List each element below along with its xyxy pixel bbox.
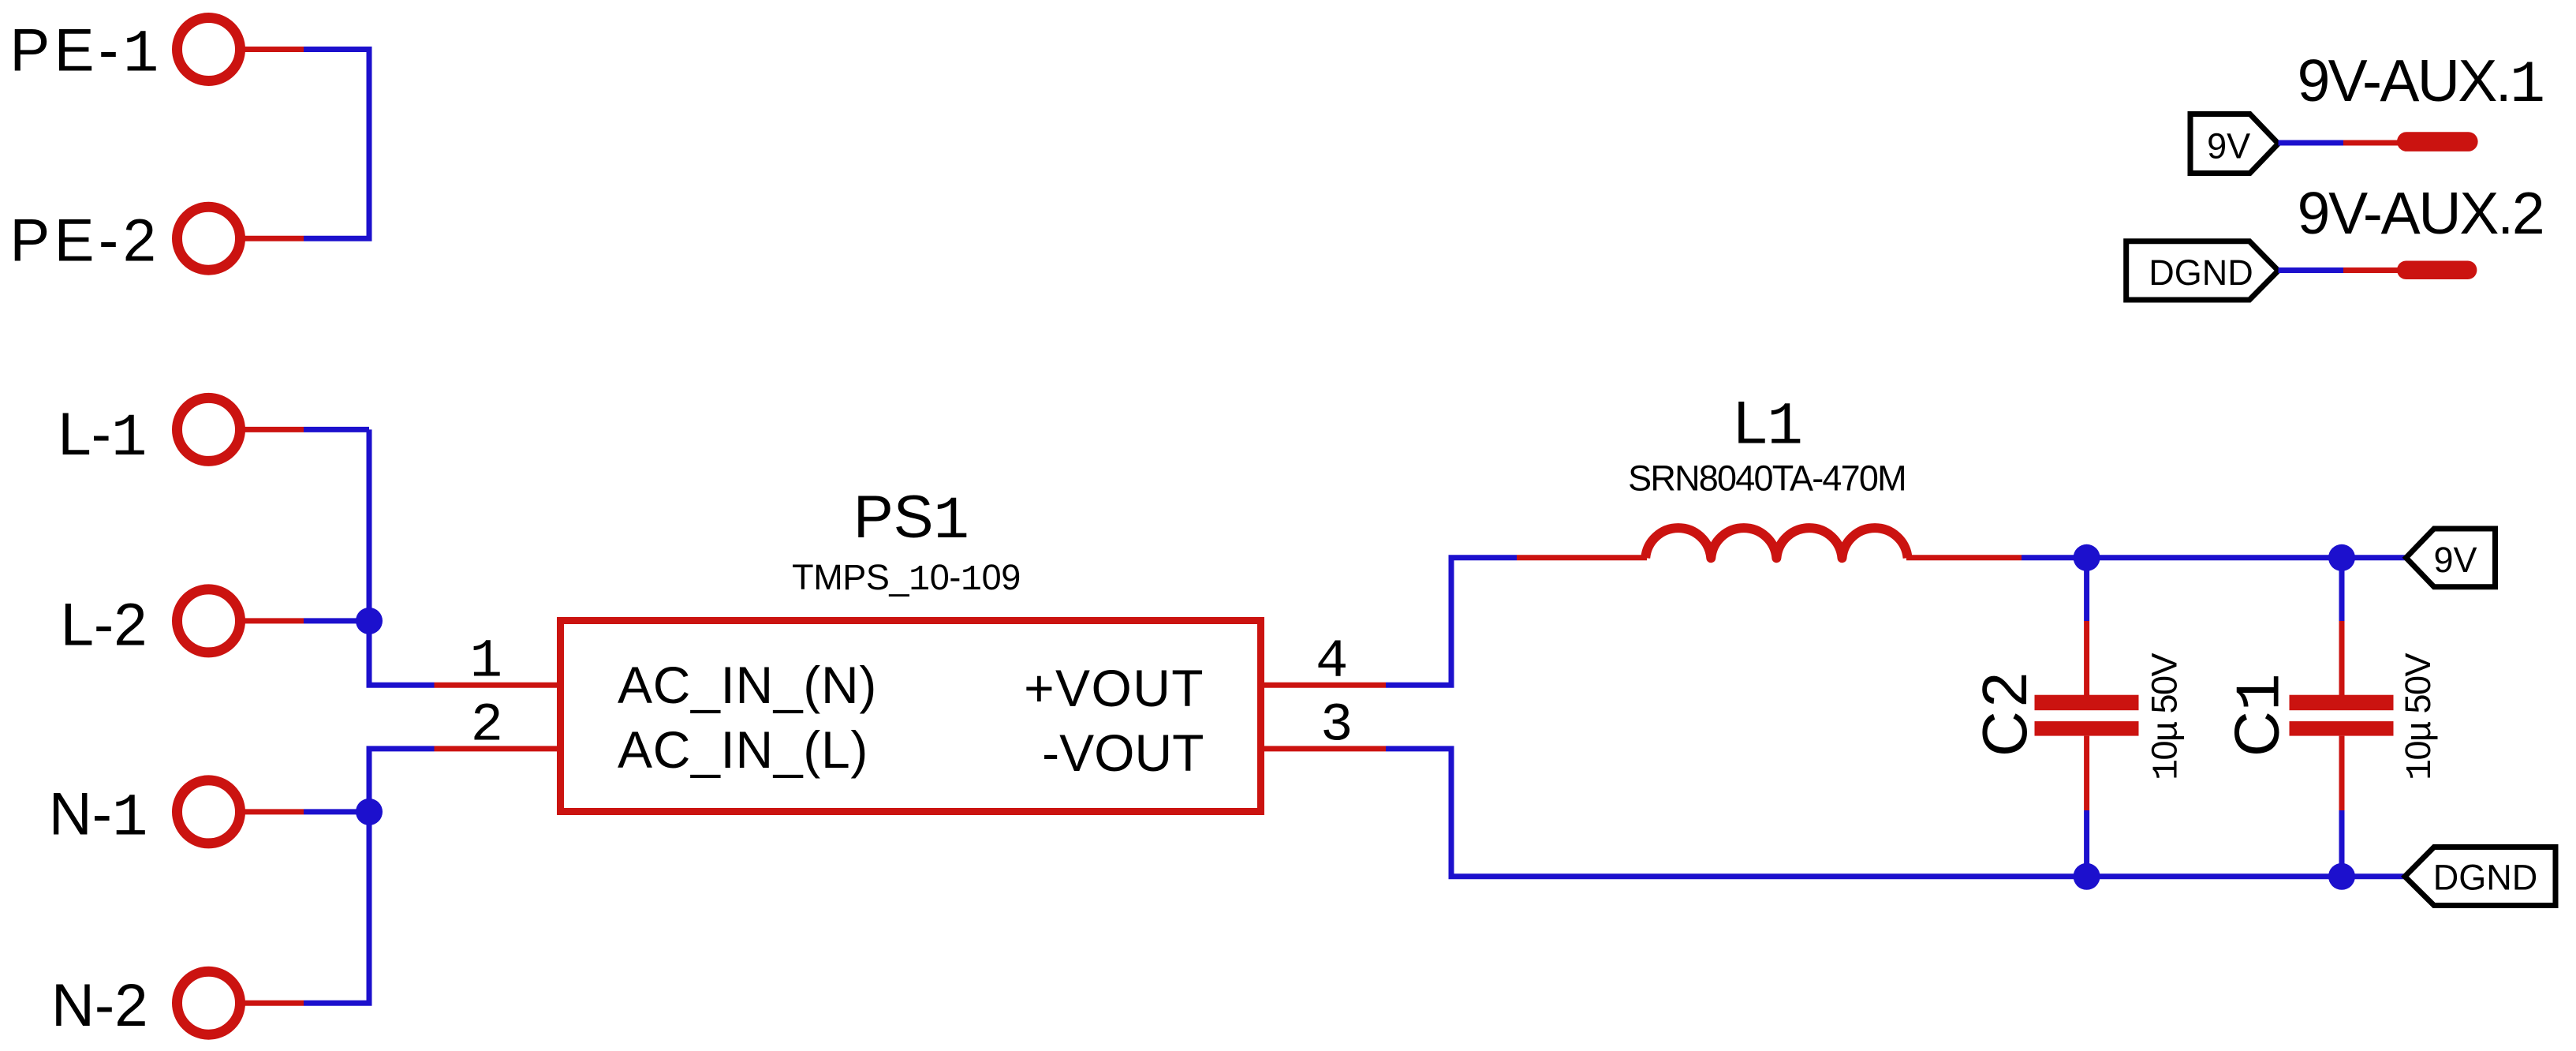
inductor L1 coils xyxy=(1645,528,1907,558)
net flag DGND aux text xyxy=(2149,252,2253,293)
capacitor C2 bottom lead (red) xyxy=(2084,736,2089,810)
svg-text:SRN8040TA-470M: SRN8040TA-470M xyxy=(1628,458,1906,498)
pin 3 lead (red) xyxy=(1264,746,1386,751)
svg-text:10µ 50V: 10µ 50V xyxy=(2145,653,2188,780)
value SRN8040TA-470M xyxy=(1628,458,1906,498)
svg-text:N-1: N-1 xyxy=(49,781,148,853)
label PE-1 xyxy=(10,17,163,89)
svg-text:DGND: DGND xyxy=(2149,252,2253,293)
svg-text:AC_IN_(L): AC_IN_(L) xyxy=(618,720,868,779)
wire C1 top (blue) xyxy=(2339,558,2345,621)
wire DGND aux (blue) xyxy=(2279,267,2344,273)
svg-text:TMPS_10-109: TMPS_10-109 xyxy=(792,557,1021,600)
label PS1 xyxy=(853,484,969,555)
capacitor C2 top lead (red) xyxy=(2084,621,2089,695)
pad 9V-AUX.2 stub xyxy=(2397,261,2477,280)
label N-1 xyxy=(49,781,148,853)
net flag 9V text xyxy=(2433,540,2477,580)
svg-text:9V-AUX.1: 9V-AUX.1 xyxy=(2298,47,2544,119)
pad PE-1 xyxy=(177,18,241,81)
pin name AC_IN_(L) xyxy=(618,720,868,779)
inductor L1 right lead (red) xyxy=(1906,555,2022,560)
label PE-2 xyxy=(10,208,161,275)
pin 2 lead (red) xyxy=(435,746,558,751)
junction 9V rail / C2 xyxy=(2074,544,2100,571)
net flag DGND text xyxy=(2433,858,2538,898)
label C1 (rotated) xyxy=(2222,673,2298,757)
pin number 2 xyxy=(471,695,503,757)
svg-text:AC_IN_(N): AC_IN_(N) xyxy=(618,656,877,714)
net flag DGND (right) xyxy=(2405,847,2555,906)
svg-text:9V: 9V xyxy=(2207,125,2250,166)
svg-text:PE-2: PE-2 xyxy=(10,208,161,275)
pin name AC_IN_(N) xyxy=(618,656,877,714)
wire L-2 to riser (blue) xyxy=(304,618,369,623)
capacitor C1 plates xyxy=(2290,695,2394,736)
svg-text:DGND: DGND xyxy=(2433,858,2538,898)
label N-2 xyxy=(51,972,147,1039)
svg-text:C1: C1 xyxy=(2222,673,2298,757)
pin number 3 xyxy=(1320,695,1353,757)
pad L-1 xyxy=(177,398,241,461)
wire 9V rail (blue) xyxy=(2022,555,2406,560)
svg-text:N-2: N-2 xyxy=(51,972,147,1039)
wire PE net (blue) xyxy=(304,50,369,239)
pad PE-2 xyxy=(177,207,241,270)
power supply PS1 box xyxy=(561,621,1261,812)
wire L-1 stub (red) xyxy=(240,427,304,432)
svg-text:9V-AUX.2: 9V-AUX.2 xyxy=(2298,180,2544,246)
pin number 1 xyxy=(470,631,502,693)
junction L-2 xyxy=(356,608,383,634)
wire L riser (blue) xyxy=(369,429,435,685)
net flag 9V (right) xyxy=(2406,529,2496,587)
label L-1 xyxy=(58,401,147,473)
label C2 (rotated) xyxy=(1969,668,2040,757)
label 9V-AUX.2 xyxy=(2298,180,2544,246)
svg-text:L-1: L-1 xyxy=(58,401,147,473)
net flag DGND (aux) xyxy=(2126,241,2279,300)
wire 9V aux (blue) xyxy=(2279,140,2344,146)
wire DGND rail (blue) xyxy=(1386,749,2405,877)
svg-text:+VOUT: +VOUT xyxy=(1024,659,1204,717)
label 9V-AUX.1 xyxy=(2298,47,2544,119)
label L-2 xyxy=(61,591,147,658)
wire C2 bottom (blue) xyxy=(2084,810,2089,877)
capacitor C1 top lead (red) xyxy=(2339,621,2345,695)
label L1 xyxy=(1734,390,1803,462)
wire C1 bottom (blue) xyxy=(2339,810,2345,877)
net flag 9V (aux) xyxy=(2190,114,2279,174)
wire N riser (blue) xyxy=(304,749,435,1003)
svg-text:L1: L1 xyxy=(1734,390,1803,462)
capacitor C2 plates xyxy=(2035,695,2139,736)
wire N-1 stub (red) xyxy=(240,809,304,814)
wire L-1 to riser (blue) xyxy=(304,427,369,432)
wire L-2 stub (red) xyxy=(240,618,304,623)
pin name +VOUT xyxy=(1024,659,1204,717)
wire N-2 stub (red) xyxy=(240,1001,304,1006)
svg-text:C2: C2 xyxy=(1969,668,2040,757)
svg-text:-VOUT: -VOUT xyxy=(1042,724,1204,782)
capacitor C1 bottom lead (red) xyxy=(2339,736,2345,810)
svg-text:PS1: PS1 xyxy=(853,484,969,555)
junction N-1 xyxy=(356,799,383,825)
net flag 9V aux text xyxy=(2207,125,2250,166)
svg-text:10µ 50V: 10µ 50V xyxy=(2398,653,2441,780)
junction 9V rail / C1 xyxy=(2328,544,2355,571)
svg-text:1: 1 xyxy=(470,631,502,693)
svg-text:L-2: L-2 xyxy=(61,591,147,658)
wire +VOUT to L1 (blue) xyxy=(1386,558,1517,686)
pin 4 lead (red) xyxy=(1264,683,1386,688)
pin 1 lead (red) xyxy=(435,683,558,688)
svg-text:9V: 9V xyxy=(2433,540,2477,580)
value C1 10u 50V (rotated) xyxy=(2398,653,2441,780)
value TMPS_10-109 xyxy=(792,557,1021,600)
wire PE-1 stub (red) xyxy=(240,47,304,52)
pad 9V-AUX.1 stub xyxy=(2397,132,2478,151)
value C2 10u 50V (rotated) xyxy=(2145,653,2188,780)
pin name -VOUT xyxy=(1042,724,1204,782)
wire PE-2 stub (red) xyxy=(240,236,304,241)
wire N-1 to riser (blue) xyxy=(304,809,369,814)
pad N-1 xyxy=(177,780,241,843)
pad L-2 xyxy=(177,589,241,653)
wire DGND aux (red) xyxy=(2343,267,2402,273)
pad N-2 xyxy=(177,971,241,1034)
svg-text:PE-1: PE-1 xyxy=(10,17,163,89)
pin number 4 xyxy=(1316,631,1348,693)
wire 9V aux (red) xyxy=(2343,140,2402,146)
inductor L1 left lead (red) xyxy=(1517,555,1647,560)
svg-text:2: 2 xyxy=(471,695,503,757)
junction DGND rail / C2 xyxy=(2074,863,2100,890)
junction DGND rail / C1 xyxy=(2328,863,2355,890)
wire C2 top (blue) xyxy=(2084,558,2089,621)
